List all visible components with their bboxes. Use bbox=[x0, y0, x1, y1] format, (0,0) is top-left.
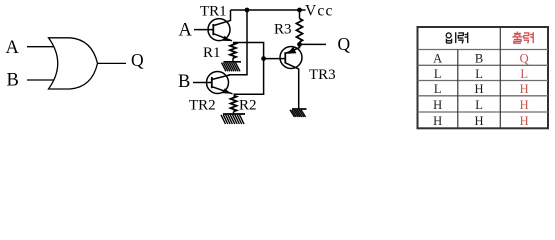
svg-text:L: L bbox=[434, 82, 442, 96]
svg-text:Q: Q bbox=[131, 50, 144, 70]
svg-text:TR2: TR2 bbox=[189, 98, 216, 114]
svg-text:B: B bbox=[178, 72, 190, 92]
svg-text:L: L bbox=[475, 98, 483, 112]
svg-text:A: A bbox=[433, 51, 442, 65]
svg-text:H: H bbox=[520, 114, 529, 128]
svg-text:L: L bbox=[434, 67, 442, 81]
svg-text:Q: Q bbox=[338, 34, 351, 54]
svg-text:H: H bbox=[475, 114, 484, 128]
svg-text:R3: R3 bbox=[274, 22, 292, 38]
svg-text:H: H bbox=[520, 98, 529, 112]
svg-text:TR1: TR1 bbox=[200, 4, 227, 20]
svg-text:TR3: TR3 bbox=[309, 67, 336, 83]
svg-text:H: H bbox=[433, 114, 442, 128]
svg-text:A: A bbox=[6, 38, 20, 58]
svg-text:Vcc: Vcc bbox=[305, 3, 334, 20]
svg-text:L: L bbox=[520, 67, 528, 81]
svg-text:A: A bbox=[179, 21, 193, 41]
svg-text:H: H bbox=[475, 82, 484, 96]
svg-text:R2: R2 bbox=[239, 98, 257, 114]
svg-text:R1: R1 bbox=[203, 45, 221, 61]
svg-text:H: H bbox=[520, 82, 529, 96]
svg-text:B: B bbox=[475, 51, 483, 65]
svg-text:H: H bbox=[433, 98, 442, 112]
svg-text:B: B bbox=[7, 71, 19, 91]
svg-text:Q: Q bbox=[520, 51, 529, 65]
svg-text:L: L bbox=[475, 67, 483, 81]
